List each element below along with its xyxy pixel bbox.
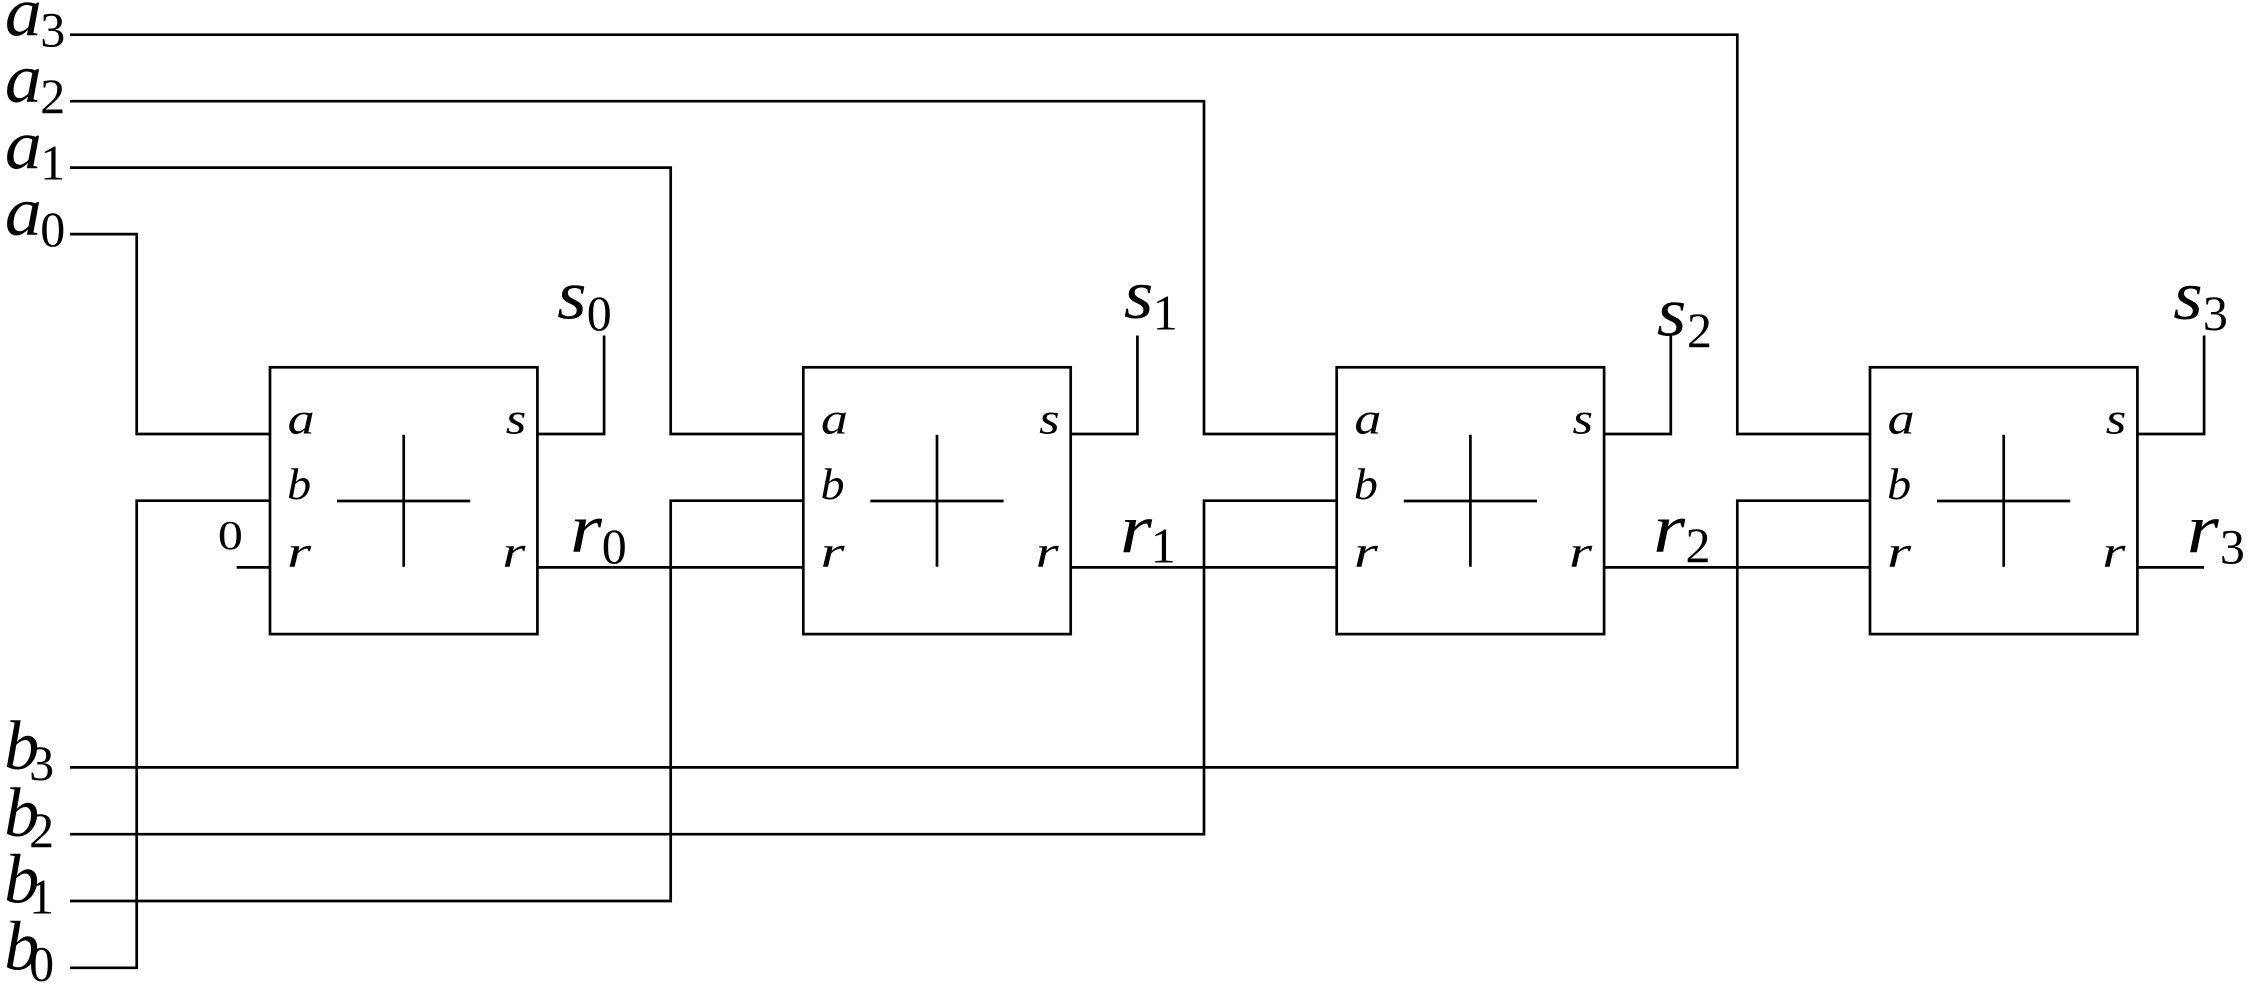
svg-text:s: s [1573,394,1594,443]
svg-text:0: 0 [602,518,627,574]
svg-text:r: r [1887,528,1912,577]
svg-text:r: r [2102,528,2126,577]
node label s2 [1657,274,1712,358]
wire b1 [70,501,803,901]
svg-text:b: b [1354,460,1378,509]
svg-text:r: r [1569,528,1593,577]
plus symbol U3 [1404,435,1537,567]
node label s1 [1124,257,1178,341]
full-adder U3 box [1337,367,1604,634]
svg-text:a: a [821,394,848,443]
wire s1 [1071,336,1138,435]
wire a3 [70,35,1870,434]
full-adder U2 box [803,367,1070,634]
plus symbol U4 [1937,435,2070,567]
svg-text:a: a [1888,394,1915,443]
svg-text:1: 1 [1153,285,1178,341]
full-adder U1 box [270,367,537,634]
node label a0 [5,174,65,257]
svg-text:s: s [2106,394,2127,443]
wire r0 [537,566,803,569]
wire carry-in 0 [237,566,270,569]
node label r2 [1653,491,1710,573]
svg-text:r: r [821,528,846,577]
node label b1 [4,842,54,925]
svg-text:s: s [2173,258,2203,335]
svg-text:r: r [2187,491,2220,568]
svg-text:1: 1 [1151,517,1176,573]
full-adder U4 box [1870,367,2137,634]
svg-text:2: 2 [1687,302,1712,358]
svg-text:2: 2 [1686,517,1711,573]
svg-text:a: a [5,174,42,251]
node label s3 [2173,258,2228,341]
svg-text:s: s [1039,394,1060,443]
wire a2 [70,101,1337,434]
svg-text:b: b [821,460,845,509]
svg-text:2: 2 [40,68,65,124]
svg-text:a: a [5,108,42,185]
svg-text:r: r [570,491,603,568]
wire a1 [70,168,803,434]
full-adder U4 [1870,367,2137,634]
node label r0 [570,491,627,574]
node label a1 [5,108,65,191]
full-adder U3 [1337,367,1604,634]
full-adder U2 [803,367,1070,634]
node label r3 [2187,491,2245,575]
node label a3 [5,0,65,58]
wire b3 [70,501,1870,768]
wire s0 [537,336,604,435]
node label b3 [4,708,54,791]
wire r1 [1071,566,1337,569]
wire b0 [70,501,270,968]
svg-text:s: s [1124,257,1154,334]
svg-text:r: r [1354,528,1379,577]
svg-text:0: 0 [40,201,65,257]
svg-text:0: 0 [29,935,54,983]
svg-text:3: 3 [40,2,65,58]
svg-text:r: r [287,528,312,577]
node label b2 [4,775,54,858]
svg-text:b: b [287,460,311,509]
svg-text:3: 3 [2220,518,2245,574]
full-adder U1 [270,367,537,634]
node label s0 [557,258,612,342]
node label r1 [1120,491,1176,573]
svg-text:s: s [506,394,527,443]
wire s3 [2137,336,2204,435]
svg-text:r: r [1036,528,1060,577]
wire r3 [2137,566,2204,569]
svg-text:0: 0 [218,512,243,558]
node label a2 [5,41,65,124]
svg-text:s: s [1657,274,1687,351]
svg-text:r: r [1653,491,1686,568]
plus symbol U1 [337,435,470,567]
node label b0 [4,908,54,983]
svg-text:b: b [1887,460,1911,509]
wire a0 [70,234,270,434]
svg-text:3: 3 [2203,285,2228,341]
svg-text:r: r [1120,491,1153,568]
svg-text:r: r [502,528,526,577]
svg-text:1: 1 [40,135,65,191]
svg-text:s: s [557,258,587,335]
wire b2 [70,501,1337,835]
plus symbol U2 [870,435,1003,567]
wire s2 [1604,336,1671,435]
svg-text:a: a [1354,394,1381,443]
wire r2 [1604,566,1870,569]
svg-text:0: 0 [587,285,612,341]
svg-text:a: a [288,394,315,443]
